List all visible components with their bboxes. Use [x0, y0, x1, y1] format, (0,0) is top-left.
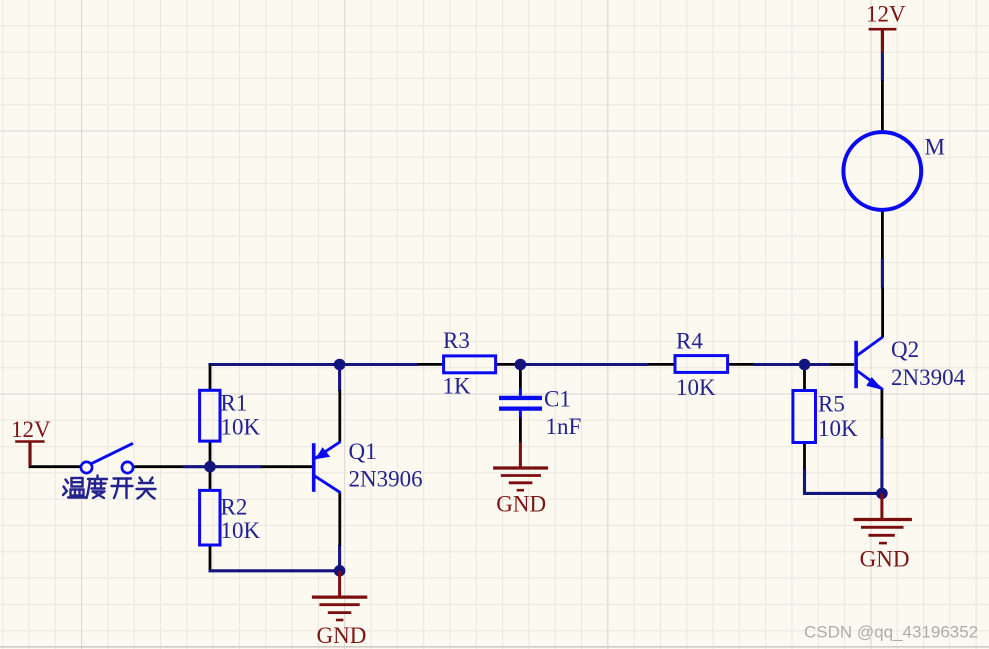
svg-text:10K: 10K: [221, 518, 261, 543]
svg-text:1nF: 1nF: [546, 414, 582, 439]
svg-text:Q1: Q1: [349, 439, 377, 464]
svg-text:2N3906: 2N3906: [349, 466, 423, 491]
svg-text:10K: 10K: [818, 416, 858, 441]
svg-text:Q2: Q2: [891, 337, 919, 362]
svg-text:GND: GND: [317, 623, 367, 648]
svg-text:10K: 10K: [676, 375, 716, 400]
svg-text:R4: R4: [676, 329, 703, 354]
svg-text:R1: R1: [221, 391, 248, 416]
svg-text:GND: GND: [860, 547, 910, 572]
svg-text:12V: 12V: [11, 417, 51, 442]
svg-text:R5: R5: [818, 392, 845, 417]
svg-text:C1: C1: [544, 386, 571, 411]
svg-text:2N3904: 2N3904: [891, 365, 966, 390]
svg-text:R3: R3: [443, 328, 470, 353]
svg-text:CSDN @qq_43196352: CSDN @qq_43196352: [804, 623, 978, 642]
svg-text:12V: 12V: [866, 2, 906, 27]
svg-text:1K: 1K: [443, 374, 472, 399]
svg-text:M: M: [925, 135, 945, 160]
svg-text:R2: R2: [221, 494, 248, 519]
svg-text:GND: GND: [496, 491, 546, 516]
svg-text:10K: 10K: [221, 414, 261, 439]
